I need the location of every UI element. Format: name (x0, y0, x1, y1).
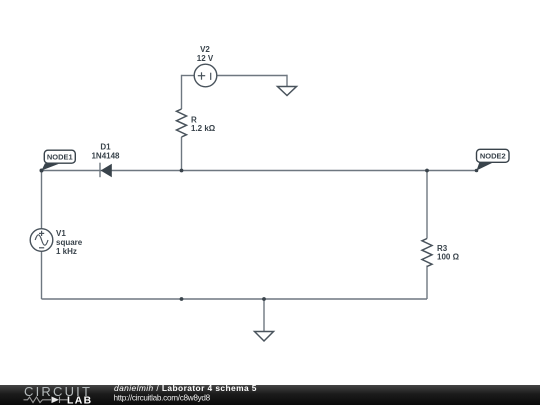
resistor R3 (422, 239, 432, 267)
wire bottom bus (42, 298, 428, 300)
svg-text:danielmih / Laborator 4 schema: danielmih / Laborator 4 schema 5 (114, 383, 257, 393)
wire V2 left terminal to corner (182, 75, 195, 77)
footer bar (0, 385, 540, 405)
junction dot bottom bus at x182 (180, 297, 184, 301)
node NODE1 junction dot (40, 169, 44, 173)
junction dot top bus at R3 branch (425, 169, 429, 173)
svg-text:D1: D1 (100, 143, 111, 152)
wire right branch top bus to R3 (426, 171, 428, 239)
wire corner down to resistor R top (181, 75, 183, 109)
wire R3 to bottom bus (426, 266, 428, 300)
svg-text:V1: V1 (56, 229, 66, 238)
node NODE2 flag (477, 149, 510, 170)
svg-text:12 V: 12 V (197, 54, 214, 63)
svg-text:R: R (191, 115, 197, 124)
resistor R (177, 109, 187, 137)
voltage source V2 (194, 64, 217, 87)
svg-text:NODE1: NODE1 (47, 153, 73, 162)
svg-text:1 kHz: 1 kHz (56, 247, 77, 256)
node NODE2 junction dot (475, 169, 479, 173)
svg-text:NODE2: NODE2 (480, 152, 506, 161)
node NODE1 flag (42, 150, 76, 170)
wire ground stem top right (286, 75, 288, 87)
wire top bus NODE1 to NODE2 (42, 170, 477, 172)
wire V1 to bottom bus (41, 252, 43, 300)
svg-text:http://circuitlab.com/c8w8yd8: http://circuitlab.com/c8w8yd8 (114, 393, 211, 402)
junction dot top bus at R branch (180, 169, 184, 173)
ground top right (278, 87, 297, 96)
wire resistor R bottom to top bus (181, 137, 183, 171)
junction dot bottom bus at ground stem (262, 297, 266, 301)
svg-text:V2: V2 (200, 45, 210, 54)
diode D1 (100, 163, 112, 178)
wire V2 right terminal to ground corner (217, 75, 288, 77)
svg-text:R3: R3 (437, 244, 448, 253)
wire left branch NODE1 to V1 (41, 171, 43, 229)
svg-text:square: square (56, 238, 83, 247)
svg-text:1.2 kΩ: 1.2 kΩ (191, 124, 216, 133)
svg-text:100 Ω: 100 Ω (437, 253, 460, 262)
svg-text:1N4148: 1N4148 (91, 151, 120, 160)
CircuitLab logo zigzag and diode glyph (24, 397, 68, 403)
voltage source V1 (30, 229, 53, 252)
wire ground stem bottom (263, 299, 265, 332)
ground bottom (255, 332, 274, 342)
svg-text:LAB: LAB (67, 395, 93, 405)
